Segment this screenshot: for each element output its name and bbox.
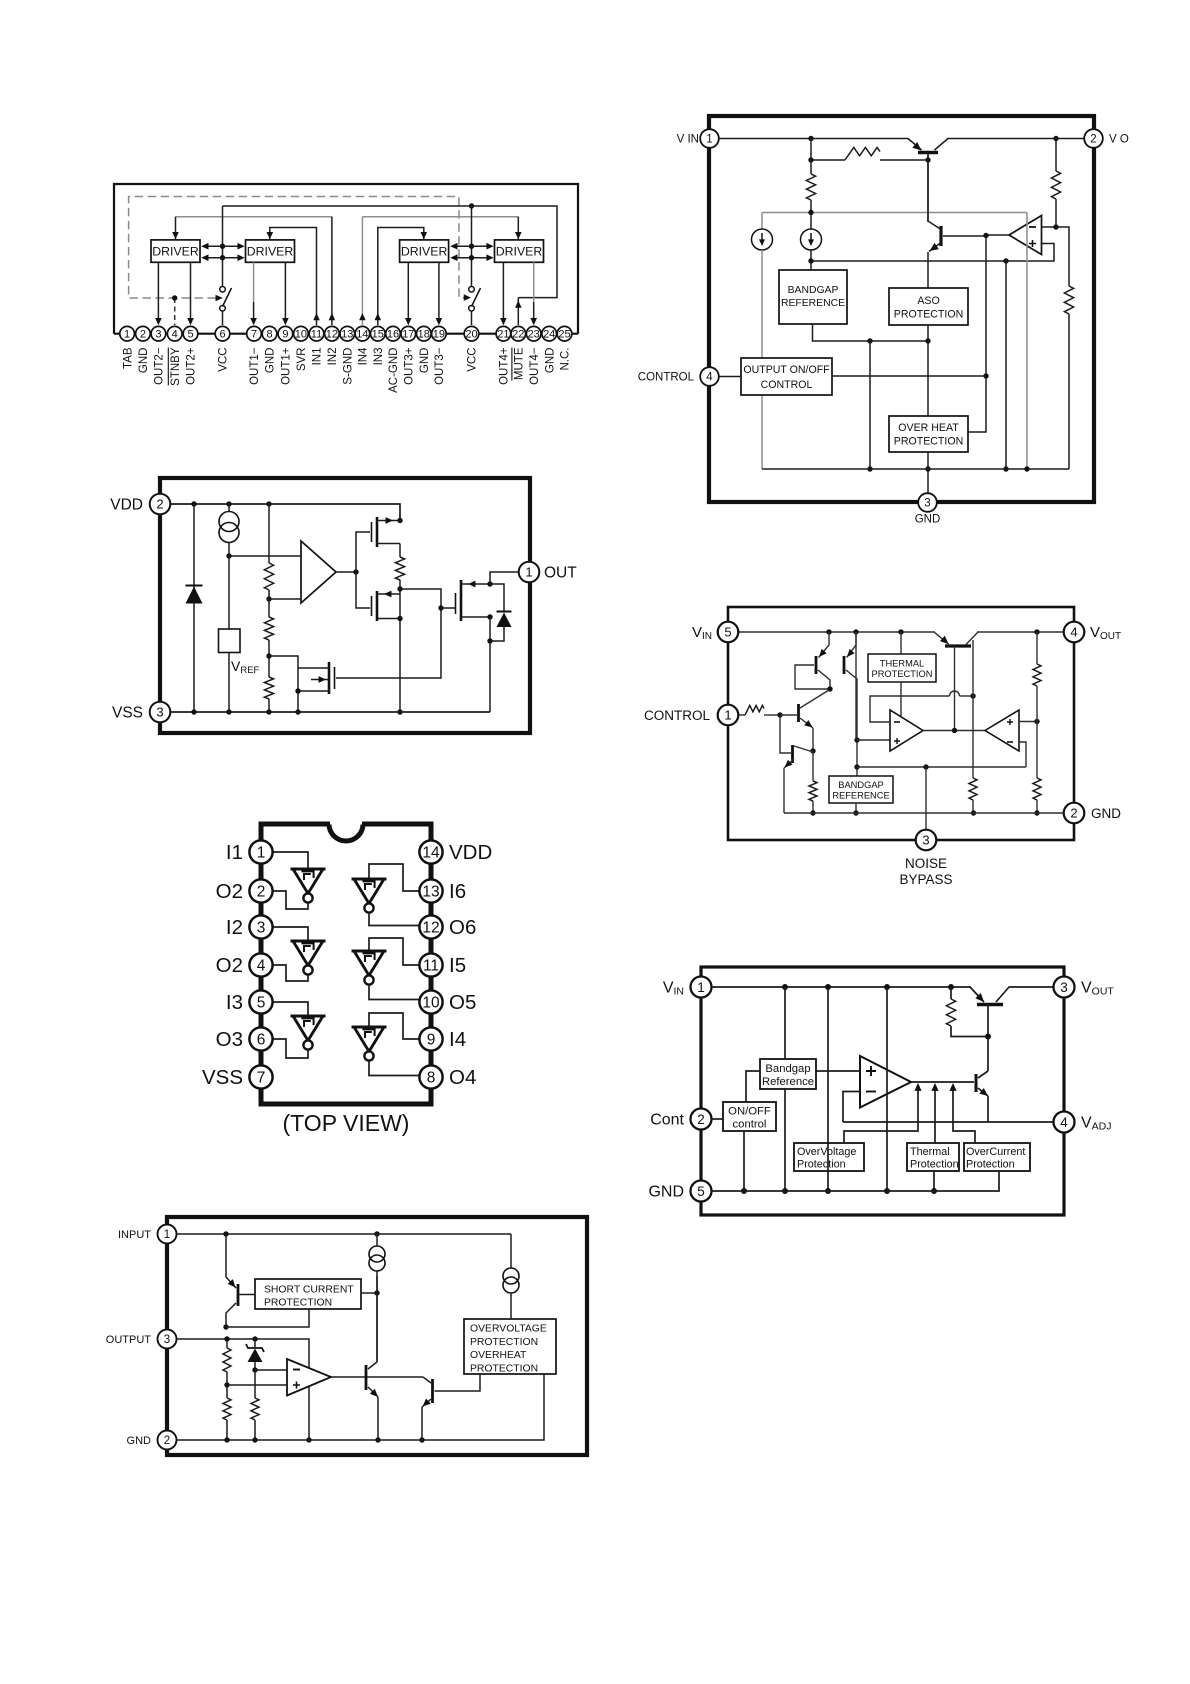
arrow bus2 to DRIVER3 lower [453, 257, 472, 259]
junction Q1 collector node [827, 686, 832, 691]
resistor R3 [268, 656, 270, 677]
pin 7 VSS [249, 1065, 272, 1088]
svg-text:OUT: OUT [544, 565, 577, 582]
junction bus2 upper [469, 244, 474, 249]
svg-text:I2: I2 [226, 916, 243, 939]
wire pin4 to on/off block [719, 376, 742, 378]
resistor R4 [395, 557, 404, 580]
pin 5 OUT2+ [183, 326, 198, 341]
OverCurrent Protection block [964, 1143, 1030, 1171]
junction Q5 emitter at rail [375, 1437, 380, 1442]
junction rail/thermal branch [898, 629, 903, 634]
resistor R4 (vertical) [1064, 286, 1073, 314]
svg-text:IN4: IN4 [358, 347, 370, 366]
svg-text:OVERHEAT: OVERHEAT [470, 1350, 527, 1361]
svg-text:3: 3 [1060, 980, 1068, 995]
pin 1 I1 [249, 840, 272, 863]
output on/off control vertical [968, 236, 986, 433]
pin 23 OUT4− [526, 326, 541, 341]
svg-text:GND: GND [265, 348, 277, 374]
pass transistor Q5 (PNP) [945, 644, 971, 647]
pin 24 GND [542, 326, 557, 341]
svg-text:VDD: VDD [110, 497, 143, 514]
svg-text:CONTROL: CONTROL [638, 372, 695, 384]
svg-text:3: 3 [257, 920, 266, 937]
svg-text:8: 8 [427, 1070, 436, 1087]
A1 output to Q5 base [923, 730, 985, 732]
transistor Q1 (PNP sense) [237, 1284, 240, 1306]
wire DRIVER1 to pin3 OUT2- [157, 262, 159, 323]
up arrow on pin11 wire [313, 313, 320, 320]
wire DRIVER4 to pin23 OUT4- (gray) [533, 262, 535, 302]
input bus IN3 pin15 to DRIVER3 [378, 228, 424, 326]
ground rail from pin5 [712, 1171, 1000, 1191]
svg-text:OUTPUT: OUTPUT [106, 1334, 152, 1346]
svg-text:6: 6 [257, 1032, 266, 1049]
wire junction to ground rail [869, 341, 871, 469]
pin 13 I6 [419, 879, 442, 902]
svg-text:PROTECTION: PROTECTION [470, 1337, 538, 1348]
pin 22 MUTE [511, 326, 526, 341]
pin 3 VOUT [1054, 977, 1075, 998]
junction noise bypass pin wire [923, 764, 928, 769]
OverVoltage Protection block [794, 1143, 864, 1171]
pin 18 GND [417, 326, 432, 341]
resistor R2 (lower divider) [1036, 722, 1038, 779]
pin 2 GND [136, 326, 151, 341]
dashed wire pin4 STNBY [174, 298, 176, 325]
pin 4 STNBY [167, 326, 182, 341]
svg-text:4: 4 [1060, 1115, 1068, 1130]
Bandgap Reference block [760, 1059, 816, 1089]
junction R1/plus input [224, 1382, 229, 1387]
junction bus2 lower [469, 255, 474, 260]
svg-text:11: 11 [423, 958, 439, 975]
wire M4 source to VSS riser [489, 617, 491, 712]
svg-text:10: 10 [295, 329, 307, 341]
wire on/off block to ground rail [743, 1131, 745, 1191]
SHORT CURRENT PROTECTION block [255, 1279, 361, 1309]
arrow bus1 to DRIVER1 lower [204, 257, 223, 259]
svg-text:REFERENCE: REFERENCE [832, 791, 889, 801]
op-amp U1 (error amplifier) [1009, 216, 1042, 255]
U1 output wire to Q2 base [986, 234, 1009, 236]
bandgap branch vertical (through box) [784, 987, 786, 1059]
gate drive to M1 [356, 532, 370, 572]
input bus gray right segment IN4 to DRIVER4 [362, 216, 518, 218]
op-amp A1 [860, 1056, 911, 1108]
pin 3 GND [918, 493, 937, 512]
svg-text:12: 12 [326, 329, 338, 341]
current source I1 (double circle) [376, 1234, 378, 1246]
pin 10 O5 [419, 990, 442, 1013]
svg-text:4: 4 [1070, 625, 1077, 640]
VDD rail from pin2 [170, 504, 400, 520]
VSS rail from pin3 [170, 711, 490, 713]
gate drive to M2 [356, 572, 370, 608]
resistor R2 (vertical) [1055, 139, 1057, 172]
current source I2 [810, 213, 812, 230]
pin 11 I5 [419, 953, 442, 976]
svg-text:DRIVER: DRIVER [496, 245, 543, 259]
svg-text:CONTROL: CONTROL [644, 708, 710, 723]
arrow bus1 to DRIVER1 upper [204, 245, 223, 247]
transistor Q5 (NPN driver) [365, 1365, 368, 1390]
junction standby/pin4 [172, 295, 177, 300]
transistor Q2 (NPN) [939, 226, 942, 246]
BANDGAP REFERENCE block [829, 776, 893, 803]
pin 3 VSS [150, 702, 171, 723]
svg-text:VSS: VSS [112, 705, 143, 722]
svg-text:OUT2+: OUT2+ [186, 347, 198, 385]
svg-text:I6: I6 [449, 880, 466, 903]
svg-text:GND: GND [1091, 806, 1121, 821]
VIN rail after pass transistor to pin2 [947, 138, 1084, 140]
resistor R1 (upper divider) [1036, 632, 1038, 664]
wire DRIVER1 to pin5 OUT2+ [190, 262, 192, 323]
svg-text:TAB: TAB [122, 347, 134, 369]
svg-text:I1: I1 [226, 841, 243, 864]
driver transistor Q2 (NPN) [975, 1074, 978, 1092]
Q1 base wire to block [240, 1294, 256, 1296]
junction rail/bandgap branch [853, 629, 858, 634]
svg-text:OverVoltage: OverVoltage [797, 1146, 856, 1158]
pin 8 GND [262, 326, 277, 341]
up arrow on pin15 wire [375, 313, 382, 320]
wire bandgap bottom to ASO line [813, 324, 929, 341]
junction at ground rail 870 [867, 466, 872, 471]
svg-text:22: 22 [512, 329, 524, 341]
svg-text:10: 10 [422, 995, 440, 1012]
svg-text:3: 3 [164, 1334, 170, 1346]
svg-text:IN1: IN1 [312, 348, 324, 366]
Q2 base wire to op-amp output [943, 235, 984, 237]
junction bus1 upper [220, 244, 225, 249]
svg-text:4: 4 [257, 958, 266, 975]
wire inverting node to R4 [1056, 227, 1069, 286]
svg-text:GND: GND [127, 1435, 152, 1447]
wire to pin3 noise bypass [925, 767, 927, 829]
ground rail from pin2 [177, 1374, 545, 1440]
pin 2 O2 [249, 879, 272, 902]
driver block DRIVER2 [246, 240, 295, 262]
svg-text:3: 3 [924, 498, 930, 510]
svg-text:8: 8 [266, 329, 272, 341]
pass transistor Q1 (PNP) [918, 151, 938, 154]
junction inverting/divider [1053, 224, 1058, 229]
wire thermal block to op-amp A1 [900, 682, 902, 717]
Q3 emitter to Q4 collector node [812, 728, 814, 751]
svg-text:1: 1 [706, 134, 712, 146]
junction overvoltage branch at rail [825, 1188, 831, 1194]
pin 4 O2 [249, 953, 272, 976]
svg-text:7: 7 [257, 1070, 266, 1087]
svg-text:Protection: Protection [797, 1159, 846, 1171]
junction I1 / op-amp input [226, 553, 231, 558]
svg-text:5: 5 [697, 1184, 705, 1199]
svg-text:Protection: Protection [910, 1159, 959, 1171]
svg-text:V IN: V IN [677, 134, 699, 146]
resistor chain R1 [268, 504, 270, 563]
pin 1 CONTROL [718, 705, 739, 726]
wire ASO bottom through bandgap line to overheat [927, 325, 929, 341]
pin 4 VADJ [1054, 1112, 1075, 1133]
svg-text:VSS: VSS [202, 1066, 243, 1089]
pin 2 VO [1084, 129, 1103, 148]
junction R4/M2 node A [397, 586, 402, 591]
svg-text:1: 1 [525, 565, 532, 580]
ASO PROTECTION block [889, 288, 968, 325]
wire branch to ground rail [1005, 261, 1007, 469]
svg-text:OUT1−: OUT1− [249, 347, 261, 385]
junction output/zener [252, 1336, 257, 1341]
svg-text:6: 6 [219, 329, 225, 341]
svg-text:2: 2 [164, 1435, 170, 1447]
junction plus-line branch [1003, 258, 1008, 263]
overvoltage branch vertical [827, 987, 829, 1191]
index notch [329, 824, 363, 841]
junction thermal at rail [931, 1188, 937, 1194]
junction overheat/ground rail [925, 466, 930, 471]
pin 4 VOUT [1064, 622, 1085, 643]
junction mute bus / center bus 2 [469, 203, 474, 208]
svg-text:O2: O2 [216, 954, 243, 977]
VADJ line to pin4 [843, 1121, 1054, 1123]
pin 5 GND [691, 1181, 712, 1202]
svg-text:OUT4−: OUT4− [529, 347, 541, 385]
pin 7 OUT1− [247, 326, 262, 341]
svg-text:I5: I5 [449, 954, 466, 977]
pin 9 I4 [419, 1027, 442, 1050]
wire DRIVER3 to pin19 OUT3- [438, 262, 440, 323]
junction VDD/resistor chain [266, 501, 271, 506]
op-amp U1 non-inverting input line [811, 244, 1054, 262]
svg-text:13: 13 [422, 884, 439, 901]
svg-text:BANDGAP: BANDGAP [838, 780, 883, 790]
Q4 emitter to ground rail [783, 768, 785, 813]
junction R5 at rail [971, 810, 976, 815]
wire switch S2 to pin20 [471, 311, 473, 325]
junction diode D1 at VSS [191, 709, 196, 714]
svg-text:OUT3−: OUT3− [434, 347, 446, 385]
svg-text:OUTPUT ON/OFF: OUTPUT ON/OFF [743, 364, 830, 376]
svg-text:9: 9 [427, 1032, 436, 1049]
U1 output wire [336, 571, 356, 573]
svg-text:21: 21 [497, 329, 509, 341]
pin 1 INPUT [158, 1225, 177, 1244]
svg-text:3: 3 [155, 329, 161, 341]
IC outline [160, 478, 530, 733]
pin 19 OUT3− [432, 326, 447, 341]
body diode D2 [490, 584, 504, 641]
ground rail [762, 468, 1069, 470]
Thermal Protection block [907, 1143, 959, 1171]
wire overheat to GND pin3 [927, 452, 929, 494]
junction output rail / R2 [1053, 136, 1058, 141]
resistor R3 (vertical, VIN to bias) [810, 160, 812, 174]
inverter gate U2 (pins 3-4) [273, 927, 309, 941]
svg-text:PROTECTION: PROTECTION [872, 669, 933, 679]
driver block DRIVER4 [495, 240, 544, 262]
junction R2 at rail [1034, 810, 1039, 815]
junction Q2 collector / noise node [854, 764, 859, 769]
junction M2 at VSS rail [397, 709, 402, 714]
svg-text:STNBY: STNBY [170, 347, 182, 386]
svg-text:V O: V O [1109, 134, 1129, 146]
junction M4 gate tap [438, 605, 443, 610]
junction rail/R1R2 divider [1034, 629, 1039, 634]
resistor R2 (lower) [223, 1398, 231, 1420]
resistor R1 (base bias) [950, 987, 952, 999]
junction bias branch at rail [1024, 466, 1029, 471]
bias line (gray) to current sources and op-amp [762, 212, 1027, 214]
svg-text:19: 19 [433, 329, 445, 341]
control input resistor R3 [739, 714, 746, 716]
svg-text:MUTE: MUTE [514, 347, 526, 380]
svg-text:PROTECTION: PROTECTION [264, 1298, 332, 1309]
pin 2 GND [158, 1431, 177, 1450]
IC outline [701, 967, 1064, 1215]
junction bandgap at rail [853, 810, 858, 815]
wire DRIVER4 to pin21 OUT4+ [502, 262, 504, 323]
junction R4 at ground rail [810, 810, 815, 815]
op-amp A2 (comparator, mirrored) [985, 710, 1019, 751]
svg-text:7: 7 [251, 329, 257, 341]
pin 9 OUT1+ [278, 326, 293, 341]
junction M2 source [397, 616, 402, 621]
A1 plus input wire [227, 1384, 287, 1386]
junction R3 at VSS [266, 709, 271, 714]
pin 2 GND [1064, 803, 1085, 824]
svg-text:Reference: Reference [762, 1076, 814, 1088]
bias line right branch to ground [1026, 213, 1028, 470]
up arrow on pin12 wire [331, 217, 333, 325]
junction feedback node [970, 693, 975, 698]
transistor Q6 (NPN) [431, 1379, 434, 1403]
svg-text:17: 17 [402, 329, 414, 341]
pin 3 OUTPUT [158, 1330, 177, 1349]
svg-text:S-GND: S-GND [343, 348, 355, 385]
op-amp U1 [301, 541, 336, 603]
junction output/control [983, 233, 988, 238]
INPUT rail from pin1 [177, 1233, 512, 1235]
A1 output wire to Q5 base and Q6 collector [331, 1376, 423, 1378]
thermal output arrow to base line [934, 1089, 936, 1143]
svg-text:OverCurrent: OverCurrent [966, 1146, 1025, 1158]
pin 1 VIN [691, 977, 712, 998]
svg-text:O6: O6 [449, 916, 476, 939]
svg-text:SVR: SVR [296, 348, 308, 372]
pin 15 IN3 [371, 326, 386, 341]
IC outline [728, 607, 1074, 840]
overvoltage output arrow to base line [844, 1089, 918, 1143]
Q6 base wire to protection block [435, 1374, 481, 1391]
node A link wire to M3 and M4 gate [336, 589, 441, 678]
junction base/R1 [925, 157, 930, 162]
resistor R2 [264, 617, 273, 640]
BANDGAP REFERENCE block [779, 270, 847, 324]
pass transistor Q1 (PNP) [977, 1003, 1003, 1007]
junction control node [777, 712, 782, 717]
pin 21 OUT4+ [496, 326, 511, 341]
current source I1 (double circle) [228, 504, 230, 512]
pin 12 IN2 [325, 326, 340, 341]
junction bandgap/op-amp plus line [808, 258, 813, 263]
svg-text:PROTECTION: PROTECTION [894, 309, 963, 321]
pin 5 I3 [249, 990, 272, 1013]
junction R2/R3 tap [266, 653, 271, 658]
wire DRIVER3 to pin17 OUT3+ [407, 262, 409, 323]
svg-text:15: 15 [372, 329, 384, 341]
junction output/R1 chain [224, 1336, 229, 1341]
ground rail [784, 812, 1064, 814]
arrowhead into switch S1 (standby) [216, 295, 223, 302]
junction rail/Q1 [223, 1231, 228, 1236]
arrow bus2 to DRIVER4 lower [472, 257, 492, 259]
U1 inverting input wire [1042, 226, 1057, 228]
pin 6 O3 [249, 1027, 272, 1050]
OUTPUT line from pin3 [177, 1339, 310, 1440]
arrow bus2 to DRIVER3 upper [453, 245, 472, 247]
junction on/off at rail [741, 1188, 747, 1194]
wire I1 to op-amp U1 input [229, 555, 301, 557]
junction R3 at rail [252, 1437, 257, 1442]
junction VDD/diode [191, 501, 196, 506]
junction Q1 collector node [223, 1324, 228, 1329]
junction base node [985, 1034, 991, 1040]
svg-text:2: 2 [140, 329, 146, 341]
svg-text:Bandgap: Bandgap [765, 1063, 810, 1075]
pin 4 CONTROL [700, 367, 719, 386]
transistor Q4 (NPN) [791, 745, 794, 763]
VIN rail from pin1 [712, 986, 972, 988]
svg-text:(TOP VIEW): (TOP VIEW) [283, 1110, 410, 1136]
pin 16 AC-GND [386, 326, 401, 341]
svg-text:4: 4 [706, 372, 713, 384]
svg-text:SHORT CURRENT: SHORT CURRENT [264, 1285, 354, 1296]
input bus IN1 (y=227.5) pin11 to DRIVER2 [270, 228, 317, 326]
OVER HEAT PROTECTION block [889, 416, 968, 452]
resistor R4 (Q4 load) [812, 751, 814, 781]
pin 1 VIN [700, 129, 719, 148]
svg-text:PROTECTION: PROTECTION [894, 436, 963, 448]
transistor Q1 (PNP, control mirror left) [815, 656, 818, 674]
svg-text:control: control [733, 1119, 767, 1131]
pin 25 N.C. [557, 326, 572, 341]
pin 10 SVR [294, 326, 309, 341]
A2 plus input wire to divider [1019, 721, 1037, 723]
svg-text:5: 5 [257, 995, 266, 1012]
svg-text:IN2: IN2 [327, 348, 339, 366]
junction R2 at rail [224, 1437, 229, 1442]
svg-text:1: 1 [697, 980, 705, 995]
wire Q2 emitter into ASO box [927, 252, 929, 288]
svg-text:DRIVER: DRIVER [401, 245, 448, 259]
svg-text:1: 1 [124, 329, 130, 341]
A1 inverting feedback loop [870, 696, 950, 722]
svg-text:OVER HEAT: OVER HEAT [898, 422, 959, 434]
svg-text:20: 20 [465, 329, 477, 341]
feedback tap from output rail [972, 640, 974, 696]
svg-text:13: 13 [341, 329, 353, 341]
arrowhead into DRIVER2 top [267, 232, 274, 239]
svg-text:OUT2−: OUT2− [154, 347, 166, 385]
A1 minus input wire [255, 1369, 287, 1371]
resistor R3 (zener bias) [251, 1398, 259, 1420]
VIN rail from pin5 [739, 631, 936, 633]
svg-text:OUT3+: OUT3+ [404, 347, 416, 385]
junction mid branch at rail [884, 1188, 890, 1194]
